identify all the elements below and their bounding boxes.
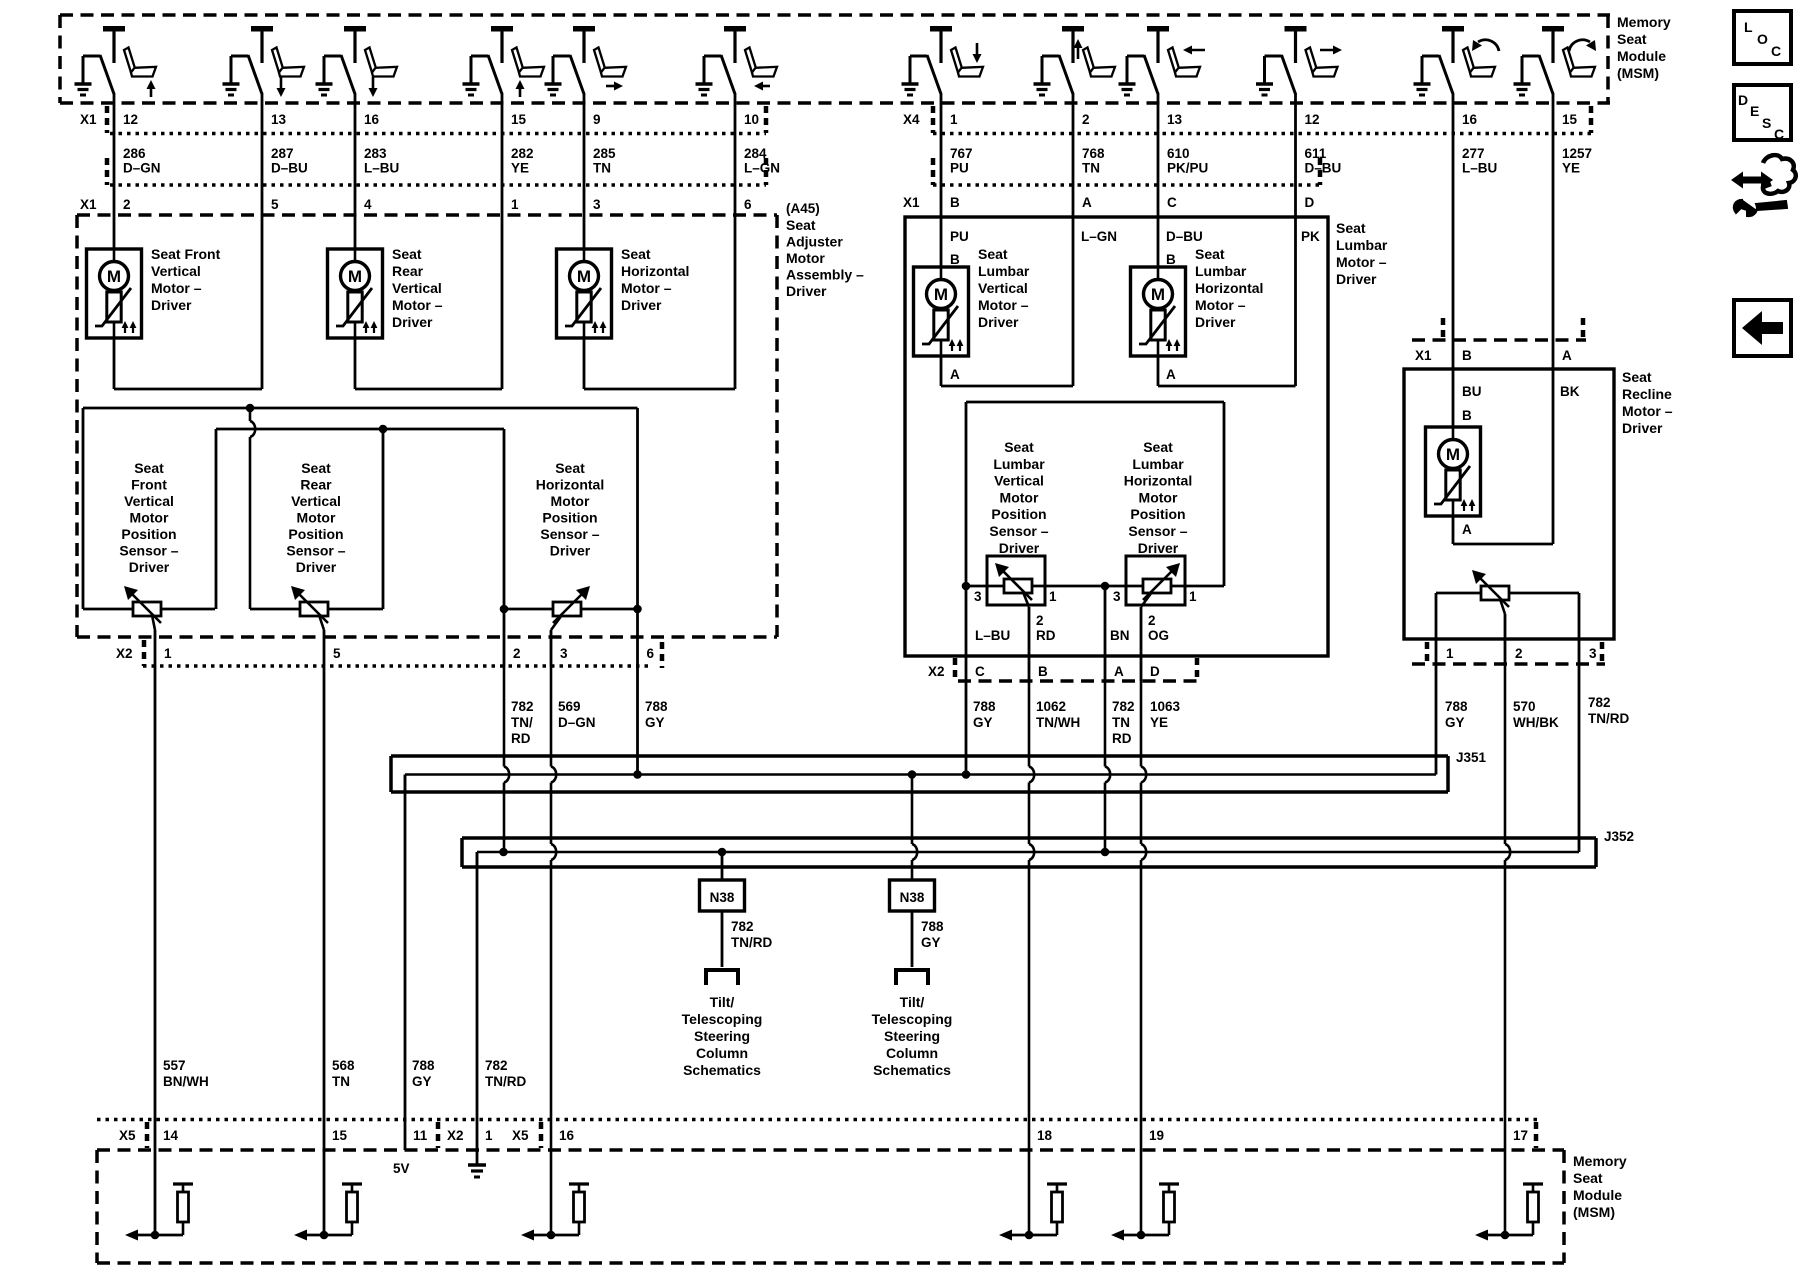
svg-text:X2: X2 (116, 646, 133, 661)
svg-text:L–BU: L–BU (1462, 161, 1497, 176)
switch / ground for MSM output pin 2 (1062, 26, 1084, 32)
svg-text:Schematics: Schematics (683, 1062, 761, 1078)
seat lumbar horizontal motor (1131, 267, 1186, 356)
svg-text:Motor: Motor (786, 250, 825, 266)
switch / ground for MSM output pin 12 (1285, 26, 1307, 32)
svg-text:Driver: Driver (1195, 314, 1236, 330)
svg-text:TN/RD: TN/RD (485, 1074, 526, 1089)
svg-text:Rear: Rear (392, 263, 424, 279)
svg-text:A: A (1462, 522, 1472, 537)
svg-text:Schematics: Schematics (873, 1062, 951, 1078)
svg-text:Column: Column (886, 1045, 938, 1061)
wire pin 12 (113, 93, 116, 215)
svg-text:287: 287 (271, 146, 294, 161)
svg-text:M: M (348, 267, 362, 286)
lumbar pot line (966, 585, 1224, 588)
svg-text:282: 282 (511, 146, 534, 161)
recline motor loop (1452, 516, 1455, 544)
svg-text:C: C (1771, 43, 1781, 59)
svg-text:2: 2 (1082, 112, 1090, 127)
ground (1034, 82, 1051, 85)
wire pin 10 (734, 93, 737, 215)
svg-text:Position: Position (542, 510, 597, 526)
svg-text:1: 1 (1189, 589, 1197, 604)
svg-text:YE: YE (1562, 161, 1580, 176)
wire pin 16 (354, 93, 357, 215)
svg-text:BN/WH: BN/WH (163, 1074, 209, 1089)
seat adjuster motor M2 (328, 249, 383, 338)
svg-text:GY: GY (973, 715, 993, 730)
svg-text:782: 782 (731, 919, 754, 934)
off-page connector (706, 970, 738, 985)
svg-text:2: 2 (513, 646, 521, 661)
J352 internal wire 782 TN/RD (477, 851, 1579, 854)
lumbar sensor wires down (965, 586, 968, 681)
svg-text:Seat: Seat (1622, 369, 1652, 385)
svg-text:1: 1 (950, 112, 958, 127)
svg-text:RD: RD (1112, 731, 1132, 746)
svg-text:284: 284 (744, 146, 767, 161)
svg-text:Lumbar: Lumbar (993, 456, 1045, 472)
svg-text:12: 12 (1305, 112, 1320, 127)
svg-text:X5: X5 (119, 1128, 136, 1143)
svg-text:Seat: Seat (301, 460, 331, 476)
ground (463, 82, 480, 85)
svg-text:B: B (1166, 252, 1176, 267)
svg-text:GY: GY (1445, 715, 1465, 730)
svg-text:A: A (1166, 367, 1176, 382)
svg-text:5: 5 (333, 646, 341, 661)
switch / ground for MSM output pin 13 (1147, 26, 1169, 32)
svg-text:Lumbar: Lumbar (1195, 263, 1247, 279)
recline curved arrow (pin 16) (1478, 40, 1499, 51)
wire 782 TN/RD (X2-2 to J352) (503, 666, 506, 767)
svg-text:1: 1 (485, 1128, 493, 1143)
svg-text:610: 610 (1167, 146, 1190, 161)
switch / ground for MSM output pin 15 (1542, 26, 1564, 32)
svg-text:Seat: Seat (392, 246, 422, 262)
svg-text:A: A (950, 367, 960, 382)
svg-text:Steering: Steering (694, 1028, 750, 1044)
svg-text:Driver: Driver (978, 314, 1019, 330)
svg-text:C: C (1167, 195, 1177, 210)
pot lines (83, 608, 215, 611)
svg-text:Horizontal: Horizontal (621, 263, 689, 279)
svg-text:Driver: Driver (999, 540, 1040, 556)
svg-text:782: 782 (1588, 695, 1611, 710)
Seat Lumbar Motor box (905, 217, 1328, 656)
lumbar sensor outline (966, 401, 1224, 404)
resistor (1047, 1182, 1067, 1185)
svg-text:Rear: Rear (300, 477, 332, 493)
lumbar wire PU (940, 215, 943, 267)
svg-text:Vertical: Vertical (291, 493, 341, 509)
lumbar vertical position sensor pot (1004, 579, 1032, 593)
lumbar motor 2 loop (1157, 356, 1160, 386)
svg-text:9: 9 (593, 112, 601, 127)
wire 782 TN RD to J352 (1104, 681, 1107, 767)
svg-text:D: D (1738, 92, 1748, 108)
wire pin 9 (583, 93, 586, 215)
resistor (1523, 1182, 1543, 1185)
internal wire (138, 1234, 183, 1237)
switch blade (324, 55, 341, 58)
lumbar motor 1 loop (940, 356, 943, 386)
node J352 (499, 848, 508, 857)
wire into motor 3 (583, 215, 586, 249)
recline pot line (1436, 592, 1579, 595)
internal wire (534, 1234, 579, 1237)
svg-text:Seat: Seat (1573, 1170, 1603, 1186)
svg-text:Driver: Driver (786, 283, 827, 299)
X2 recline connector row (1425, 642, 1430, 664)
wire pin 12 (1294, 93, 1297, 215)
svg-text:Driver: Driver (621, 297, 662, 313)
wire pot2 wiper to X2-5 (323, 630, 326, 666)
connector X4 row dotted line (933, 132, 1591, 136)
svg-text:3: 3 (1113, 589, 1121, 604)
svg-text:TN: TN (1112, 715, 1130, 730)
ground (223, 82, 240, 85)
svg-text:A: A (1082, 195, 1092, 210)
resistor (173, 1182, 193, 1185)
svg-text:Horizontal: Horizontal (1195, 280, 1263, 296)
seat icon pin 15 (1563, 48, 1575, 73)
svg-text:Seat: Seat (1143, 439, 1173, 455)
X1 recline connector dashed line (1412, 338, 1586, 342)
svg-text:Sensor –: Sensor – (540, 526, 599, 542)
J351 splice outline (391, 754, 1448, 758)
switch / ground for MSM output pin 9 (573, 26, 595, 32)
svg-text:13: 13 (271, 112, 287, 127)
resistor (569, 1182, 589, 1185)
seat icon pin 2 (1083, 48, 1095, 73)
svg-text:N38: N38 (900, 890, 925, 905)
svg-text:Module: Module (1573, 1187, 1622, 1203)
svg-text:D–BU: D–BU (1305, 161, 1342, 176)
svg-text:286: 286 (123, 146, 146, 161)
internal wire (1124, 1234, 1169, 1237)
switch / ground for MSM output pin 12 (103, 26, 125, 32)
node: junction of line B and sensor2 right (379, 425, 388, 434)
svg-text:767: 767 (950, 146, 973, 161)
switch blade (1127, 55, 1144, 58)
svg-text:Memory: Memory (1617, 14, 1671, 30)
svg-text:1: 1 (164, 646, 172, 661)
lumbar horizontal position sensor box (1126, 556, 1185, 605)
svg-text:Motor: Motor (297, 510, 336, 526)
svg-text:Motor –: Motor – (1195, 297, 1246, 313)
svg-text:X4: X4 (903, 112, 920, 127)
svg-text:768: 768 (1082, 146, 1105, 161)
svg-text:PK/PU: PK/PU (1167, 161, 1208, 176)
lumbar wire D–BU (1157, 215, 1160, 267)
svg-text:TN/RD: TN/RD (1588, 711, 1629, 726)
svg-text:18: 18 (1037, 1128, 1053, 1143)
svg-text:568: 568 (332, 1058, 355, 1073)
svg-text:C: C (1774, 126, 1784, 142)
switch blade (1422, 55, 1439, 58)
recline curved arrow (pin 15) (1569, 40, 1590, 51)
wire B into motor (1452, 340, 1455, 427)
svg-text:Motor –: Motor – (392, 297, 443, 313)
svg-text:D–GN: D–GN (558, 715, 596, 730)
svg-text:M: M (577, 267, 591, 286)
svg-text:WH/BK: WH/BK (1513, 715, 1559, 730)
svg-text:L–BU: L–BU (975, 628, 1010, 643)
svg-text:782: 782 (1112, 699, 1135, 714)
svg-text:788: 788 (412, 1058, 435, 1073)
svg-text:Telescoping: Telescoping (872, 1011, 953, 1027)
ground (1256, 82, 1273, 85)
svg-text:3: 3 (560, 646, 568, 661)
wire pin 15 (501, 93, 504, 215)
svg-text:Motor: Motor (551, 493, 590, 509)
wire 1062 TN/WH to X5-18 (1028, 681, 1031, 767)
svg-text:782: 782 (511, 699, 534, 714)
connector separators (105, 106, 110, 133)
svg-text:788: 788 (645, 699, 668, 714)
svg-text:11: 11 (413, 1128, 428, 1143)
(A45) Seat Adjuster Motor Assembly dashed box (77, 213, 777, 217)
svg-text:RD: RD (1036, 628, 1056, 643)
lumbar wire PK (1294, 215, 1297, 386)
node J351 (633, 770, 642, 779)
svg-text:TN: TN (1082, 161, 1100, 176)
off-page connector (896, 970, 928, 985)
svg-text:GY: GY (412, 1074, 432, 1089)
position sensor pot 1 (133, 602, 161, 616)
svg-text:PK: PK (1301, 229, 1320, 244)
wire to N38 at x=722 (721, 852, 724, 880)
lumbar vertical position sensor box (987, 556, 1045, 605)
svg-text:15: 15 (332, 1128, 348, 1143)
svg-text:Motor: Motor (130, 510, 169, 526)
wire pin 15 (1552, 93, 1555, 340)
svg-text:Vertical: Vertical (978, 280, 1028, 296)
wire 568 TN (X2-5 to X5-15) (323, 666, 326, 1235)
svg-text:16: 16 (559, 1128, 575, 1143)
svg-text:19: 19 (1149, 1128, 1164, 1143)
svg-text:B: B (1462, 348, 1472, 363)
svg-text:1062: 1062 (1036, 699, 1066, 714)
ground (316, 82, 333, 85)
position sensor pot 3 (553, 602, 581, 616)
svg-text:E: E (1750, 103, 1759, 119)
svg-text:O: O (1757, 31, 1768, 47)
sensor bus line B (216, 428, 504, 431)
wire 570 WH/BK to X5-17 (1504, 664, 1507, 844)
svg-text:A: A (1562, 348, 1572, 363)
svg-text:N38: N38 (710, 890, 735, 905)
svg-text:570: 570 (1513, 699, 1536, 714)
wire pot1 wiper to X2-1 (154, 630, 157, 666)
internal wire (1488, 1234, 1533, 1237)
svg-text:Driver: Driver (550, 543, 591, 559)
Memory Seat Module bottom dashed box (97, 1148, 1564, 1152)
ground (1514, 82, 1531, 85)
switch blade (704, 55, 721, 58)
seat icon pin 12 (1306, 48, 1318, 73)
svg-text:L: L (1744, 19, 1753, 35)
svg-text:GY: GY (921, 935, 941, 950)
svg-text:B: B (950, 252, 960, 267)
sensor3 left wire (503, 429, 506, 609)
svg-text:Seat: Seat (1195, 246, 1225, 262)
svg-text:M: M (934, 285, 948, 304)
J351 internal wire 788 GY (405, 773, 1436, 776)
seat icon pin 10 (745, 48, 757, 73)
wire 788 GY to J351 right end (1435, 664, 1438, 775)
svg-text:283: 283 (364, 146, 387, 161)
ground (545, 82, 562, 85)
wire A (1552, 340, 1555, 544)
svg-text:L–BU: L–BU (364, 161, 399, 176)
navigation squiggle icon (1763, 155, 1796, 194)
connector row 2 dotted line (X1 adjuster) (110, 183, 766, 187)
svg-text:17: 17 (1513, 1128, 1528, 1143)
svg-text:X1: X1 (903, 195, 920, 210)
svg-text:D–BU: D–BU (1166, 229, 1203, 244)
Memory Seat Module (MSM) top dashed box (60, 13, 1610, 17)
switch / ground for MSM output pin 13 (251, 26, 273, 32)
svg-text:Steering: Steering (884, 1028, 940, 1044)
seat icon pin 13 (1168, 48, 1180, 73)
bottom connector separators (145, 1122, 150, 1148)
svg-text:Motor –: Motor – (621, 280, 672, 296)
svg-text:L–GN: L–GN (1081, 229, 1117, 244)
svg-text:Vertical: Vertical (151, 263, 201, 279)
svg-text:TN: TN (593, 161, 611, 176)
seat direction arrows (150, 84, 153, 97)
seat icon pin 13 (272, 48, 284, 73)
svg-text:TN: TN (332, 1074, 350, 1089)
wire 557 BN/WH (X2-1 to X5-14) (154, 666, 157, 1235)
wire 788 GY J351 to X5-11 (404, 775, 407, 1151)
svg-text:1: 1 (1049, 589, 1057, 604)
switch blade (231, 55, 248, 58)
seat icon pin 1 (951, 48, 963, 73)
svg-text:Tilt/: Tilt/ (900, 994, 925, 1010)
svg-text:Seat: Seat (1004, 439, 1034, 455)
wire loop to return pin (113, 338, 116, 389)
svg-text:(MSM): (MSM) (1573, 1204, 1615, 1220)
internal wire (307, 1234, 352, 1237)
recline position sensor pot (1481, 586, 1509, 600)
svg-text:B: B (1038, 664, 1048, 679)
LOC icon box (1734, 11, 1791, 64)
lumbar horizontal position sensor pot (1143, 579, 1171, 593)
svg-text:Column: Column (696, 1045, 748, 1061)
svg-text:Seat: Seat (1617, 31, 1647, 47)
svg-text:12: 12 (123, 112, 138, 127)
svg-text:14: 14 (163, 1128, 179, 1143)
connector N38 (890, 880, 935, 911)
svg-text:Seat: Seat (555, 460, 585, 476)
sensor2 right wire (382, 429, 385, 609)
svg-text:C: C (975, 664, 985, 679)
switch blade (1265, 55, 1282, 58)
svg-text:1257: 1257 (1562, 146, 1592, 161)
svg-text:X2: X2 (447, 1128, 464, 1143)
svg-text:X2: X2 (928, 664, 945, 679)
svg-text:10: 10 (744, 112, 759, 127)
wire pin 13 (1157, 93, 1160, 215)
svg-text:569: 569 (558, 699, 581, 714)
svg-text:B: B (950, 195, 960, 210)
ground (75, 82, 92, 85)
svg-text:Driver: Driver (1138, 540, 1179, 556)
svg-text:Seat: Seat (621, 246, 651, 262)
svg-text:X1: X1 (80, 112, 97, 127)
svg-text:Driver: Driver (151, 297, 192, 313)
svg-text:Motor –: Motor – (151, 280, 202, 296)
seat icon pin 16 (1463, 48, 1475, 73)
svg-text:Driver: Driver (129, 559, 170, 575)
svg-text:13: 13 (1167, 112, 1183, 127)
wire into motor 1 (113, 215, 116, 249)
svg-text:Vertical: Vertical (994, 473, 1044, 489)
svg-text:Horizontal: Horizontal (1124, 473, 1192, 489)
svg-text:788: 788 (1445, 699, 1468, 714)
svg-text:TN/: TN/ (511, 715, 533, 730)
svg-text:BU: BU (1462, 384, 1482, 399)
svg-text:Driver: Driver (1622, 420, 1663, 436)
seat lumbar vertical motor (914, 267, 969, 356)
svg-text:5V: 5V (393, 1161, 410, 1176)
svg-text:BN: BN (1110, 628, 1130, 643)
svg-text:M: M (107, 267, 121, 286)
internal wire (1012, 1234, 1057, 1237)
svg-text:5: 5 (271, 197, 279, 212)
svg-text:J351: J351 (1456, 750, 1487, 765)
wire 788 GY to J351 (965, 681, 968, 775)
svg-text:D: D (1305, 195, 1315, 210)
svg-text:Recline: Recline (1622, 386, 1672, 402)
svg-text:Module: Module (1617, 48, 1666, 64)
ground (696, 82, 713, 85)
svg-text:Seat: Seat (786, 217, 816, 233)
svg-text:15: 15 (511, 112, 527, 127)
svg-text:15: 15 (1562, 112, 1578, 127)
wire to N38 at x=912 (911, 775, 914, 845)
wire 788 GY (X2-6 to J351) (636, 666, 639, 775)
connector N38 (700, 880, 745, 911)
svg-text:TN/WH: TN/WH (1036, 715, 1080, 730)
wire sensor3 left to X2-2 (503, 609, 506, 666)
J352 splice outline (462, 836, 1596, 840)
svg-text:3: 3 (1589, 646, 1597, 661)
wire pin 1 (940, 93, 943, 215)
svg-text:OG: OG (1148, 628, 1169, 643)
ground inside MSM (X2-1) (476, 1150, 479, 1165)
svg-text:Position: Position (121, 526, 176, 542)
svg-text:Tilt/: Tilt/ (710, 994, 735, 1010)
svg-text:Motor –: Motor – (978, 297, 1029, 313)
svg-text:Position: Position (1130, 506, 1185, 522)
svg-text:D–GN: D–GN (123, 161, 161, 176)
wire 1063 YE to X5-19 (1140, 681, 1143, 767)
sensor2 left wire with hop over line B (249, 408, 252, 421)
back arrow icon box (1734, 300, 1791, 356)
svg-text:D–BU: D–BU (271, 161, 308, 176)
svg-text:Vertical: Vertical (392, 280, 442, 296)
svg-text:788: 788 (921, 919, 944, 934)
sensor3 right wire (636, 408, 639, 609)
svg-text:TN/RD: TN/RD (731, 935, 772, 950)
svg-text:A: A (1114, 664, 1124, 679)
svg-text:Sensor –: Sensor – (119, 543, 178, 559)
